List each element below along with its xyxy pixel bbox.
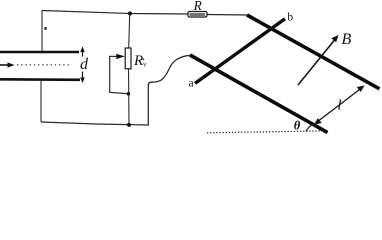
svg-text:l: l bbox=[337, 98, 341, 114]
svg-text:B: B bbox=[342, 31, 352, 48]
svg-text:R: R bbox=[193, 0, 202, 13]
svg-text:v: v bbox=[143, 61, 147, 69]
svg-text:R: R bbox=[133, 53, 143, 69]
svg-text:θ: θ bbox=[294, 119, 301, 133]
svg-text:d: d bbox=[80, 56, 89, 73]
svg-text:a: a bbox=[188, 78, 193, 90]
svg-text:b: b bbox=[287, 12, 293, 24]
